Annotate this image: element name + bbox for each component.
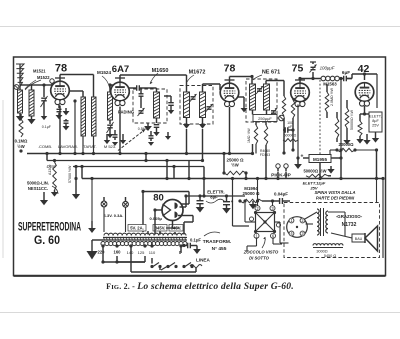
leader zoccolo xyxy=(262,237,266,248)
resistor diode b xyxy=(264,122,267,146)
svg-text:110: 110 xyxy=(149,250,156,255)
label 5V 2A xyxy=(128,225,146,232)
voice coil box xyxy=(352,234,365,242)
plate wire V5 up xyxy=(352,72,377,108)
resistor 2 Mohm xyxy=(325,84,334,118)
tuning capacitor C3 xyxy=(107,120,114,138)
trimmer circle right xyxy=(277,115,284,121)
transformer core xyxy=(103,237,187,241)
svg-text:57000 ½W: 57000 ½W xyxy=(68,165,72,183)
bus verticals left xyxy=(45,152,83,179)
vertical text A1300 xyxy=(48,165,52,175)
tube V4 75 xyxy=(291,83,310,106)
svg-text:½W: ½W xyxy=(17,144,24,149)
cap gnd osc zone xyxy=(148,131,154,146)
label tube V1 78 xyxy=(55,63,67,75)
cap pair right xyxy=(283,127,295,133)
dial lamp 2 xyxy=(123,201,129,207)
leader M1672 xyxy=(187,75,194,82)
diode plates V4 xyxy=(294,98,306,101)
leader M1522 xyxy=(25,80,36,89)
label tube V2 6A7 xyxy=(112,64,129,75)
drop to rect filament xyxy=(148,221,179,235)
svg-text:M1521: M1521 xyxy=(33,69,46,74)
screen resistor bar A xyxy=(81,97,86,136)
title SUPERETERODINA xyxy=(18,222,81,234)
box M1955 xyxy=(303,155,343,163)
svg-text:5450 Ω: 5450 Ω xyxy=(324,254,337,258)
socket pin 1 bottom left xyxy=(254,233,259,238)
speaker cone xyxy=(365,226,378,251)
svg-text:220: 220 xyxy=(98,250,106,255)
svg-text:78: 78 xyxy=(224,63,236,75)
cathode V3 xyxy=(238,97,247,112)
socket wires bottom xyxy=(247,238,282,252)
label 345V b xyxy=(169,225,183,232)
wire coil top to C1 xyxy=(32,83,46,88)
tap drops xyxy=(101,244,182,272)
stage drop coil xyxy=(144,152,147,162)
label TRASFORM 455 xyxy=(203,232,232,252)
IF transformer 2 box xyxy=(246,79,277,122)
dial lamp 1 xyxy=(101,201,107,207)
svg-text:M1522: M1522 xyxy=(37,75,50,80)
caption figure 2 xyxy=(106,281,294,292)
top cap V3 xyxy=(225,80,235,83)
resistor 50000 half W xyxy=(303,169,331,178)
svg-text:80: 80 xyxy=(153,193,164,204)
speaker wires xyxy=(304,212,352,238)
schematic border frame xyxy=(14,57,386,276)
label M1522 xyxy=(25,75,50,90)
wire plate V3 to IFT2 xyxy=(230,75,254,84)
cathode components V1 xyxy=(56,105,63,120)
tap labels xyxy=(98,250,182,256)
label LINEA 2 xyxy=(0,0,1,1)
wire choke to V5 xyxy=(339,74,352,150)
tube socket square xyxy=(254,211,276,233)
svg-text:NES11CC.: NES11CC. xyxy=(28,186,48,191)
wire socket to plug xyxy=(275,222,289,243)
grounds mid right xyxy=(343,134,370,145)
plus electrolytic xyxy=(301,154,304,160)
svg-text:0.5MΩ: 0.5MΩ xyxy=(138,127,149,131)
bus wire B2 xyxy=(73,166,204,168)
tube V2 6A7 xyxy=(111,82,130,105)
top cap V2 xyxy=(115,78,125,82)
top cap V1 xyxy=(55,78,65,81)
labels vertical small xyxy=(47,165,56,169)
IFT1 grounds xyxy=(183,118,206,129)
wire 20000 to right xyxy=(330,148,378,154)
transformer primary winding xyxy=(101,242,187,246)
svg-text:345V.: 345V. xyxy=(155,226,166,231)
svg-text:5V. 2A.: 5V. 2A. xyxy=(130,226,144,231)
IFT2 secondary coil xyxy=(264,84,270,110)
label PICK-UP xyxy=(268,172,295,179)
oscillator trimmer xyxy=(138,104,145,116)
bus wire B3 xyxy=(82,178,383,180)
electrolytic cap 2 xyxy=(222,194,233,213)
resistor 30000 xyxy=(335,112,339,142)
drop 56 ground xyxy=(72,165,80,199)
wire 345 taps xyxy=(152,232,175,247)
wire right edge xyxy=(381,177,384,258)
label IFT M1672 xyxy=(189,70,206,76)
label tube V3 78 xyxy=(224,63,236,75)
labels COMB LAVORAZ TARAT xyxy=(38,144,116,149)
wire bus to left gnd xyxy=(90,177,93,221)
antenna coil L1 primary xyxy=(18,90,23,113)
svg-text:LAVORAR.: LAVORAR. xyxy=(58,144,78,149)
IFT1 secondary coil xyxy=(200,92,206,118)
label IFT NE671 xyxy=(262,70,280,76)
output transformer core xyxy=(321,208,324,236)
svg-text:50000Ω ½W: 50000Ω ½W xyxy=(303,169,326,174)
wire screen A xyxy=(69,91,83,97)
capacitor 0.04uF xyxy=(272,192,290,205)
svg-text:160: 160 xyxy=(114,250,122,255)
svg-text:125: 125 xyxy=(138,250,145,255)
svg-text:M1524: M1524 xyxy=(97,70,111,75)
V5 cathode resistor xyxy=(356,106,369,144)
transformer secondary winding xyxy=(104,233,186,235)
wire IFT1 to V3 xyxy=(203,84,221,92)
svg-text:BAU: BAU xyxy=(355,237,363,241)
svg-text:FIG. 2. - Lo schema elettrico: FIG. 2. - Lo schema elettrico della Supe… xyxy=(106,281,294,292)
wire plate V2 to IFT1 xyxy=(120,75,187,92)
svg-text:.COMB.: .COMB. xyxy=(38,144,52,149)
stage drop V2 xyxy=(118,107,121,156)
ground right resistor xyxy=(327,166,334,174)
speaker assembly dashed box xyxy=(284,203,380,258)
tube V1 78 xyxy=(51,81,70,104)
page edge line bottom xyxy=(0,312,400,314)
field coil labels xyxy=(316,250,336,259)
wire frame to resistor xyxy=(19,114,22,153)
label SPINA xyxy=(314,190,355,201)
drops right xyxy=(318,149,378,203)
svg-text:A1300: A1300 xyxy=(48,165,52,175)
svg-text:N1732: N1732 xyxy=(342,222,357,228)
pot arrow osc xyxy=(118,130,145,151)
linea cord xyxy=(190,265,202,268)
svg-text:2.0MΩ ½W: 2.0MΩ ½W xyxy=(330,87,334,106)
top cap V4 xyxy=(295,80,305,83)
svg-text:25V: 25V xyxy=(372,124,379,128)
svg-text:25000 Ω: 25000 Ω xyxy=(243,191,260,196)
label tube V5 42 xyxy=(358,63,370,75)
svg-text:250μμF: 250μμF xyxy=(258,116,272,121)
oscillator cap xyxy=(139,89,144,99)
svg-text:½W: ½W xyxy=(231,163,238,168)
label 80 xyxy=(153,193,164,204)
title G60 xyxy=(34,235,60,247)
label M1521 xyxy=(33,69,46,74)
label 01uF xyxy=(42,125,52,129)
svg-text:50000Ω ¼W: 50000Ω ¼W xyxy=(350,109,354,130)
svg-text:PARTE DEI PIEDINI: PARTE DEI PIEDINI xyxy=(316,196,355,201)
cathode cap V1b xyxy=(63,108,70,130)
label GRAZIOSO xyxy=(335,213,365,220)
IFT1 trimmers xyxy=(190,94,213,112)
IFT1 primary coil xyxy=(184,92,190,118)
svg-text:+: + xyxy=(231,199,234,204)
svg-text:ELETT.: ELETT. xyxy=(369,115,381,119)
drop mid verticals xyxy=(165,159,205,180)
svg-text:8μF: 8μF xyxy=(210,195,218,200)
wire IFT2 out xyxy=(266,81,284,89)
ground transformer left xyxy=(88,221,96,233)
svg-text:1MΩ ½W: 1MΩ ½W xyxy=(247,128,251,143)
svg-text:M1650: M1650 xyxy=(152,68,169,74)
socket pin 3 top right xyxy=(270,206,275,211)
resistor 20000 xyxy=(335,142,356,152)
resistor network V4 grid xyxy=(282,88,294,155)
bars to bus xyxy=(81,136,95,155)
resistor M1994 xyxy=(238,186,262,209)
wire cathode bus V1 xyxy=(73,99,76,155)
svg-text:0.005μ: 0.005μ xyxy=(150,216,163,221)
antenna xyxy=(16,64,24,88)
svg-text:6.3V. 0.3A.: 6.3V. 0.3A. xyxy=(104,213,124,218)
svg-text:TRASFORM.: TRASFORM. xyxy=(203,239,232,245)
svg-text:6A7: 6A7 xyxy=(112,64,129,75)
svg-text:μF: μF xyxy=(288,125,292,129)
bus wire B1 xyxy=(47,160,204,162)
wire bottom right bus xyxy=(202,179,272,202)
svg-text:-GRAZIOSO-: -GRAZIOSO- xyxy=(336,214,363,219)
socket wires top xyxy=(256,177,274,206)
ground L3 xyxy=(144,123,152,131)
socket side pins xyxy=(249,217,280,227)
leader M1650 xyxy=(150,73,158,84)
stage drop IFT1 xyxy=(185,129,204,162)
field coil winding xyxy=(313,244,343,248)
wire plate V1 to B xyxy=(60,75,94,98)
drop pickup xyxy=(276,172,286,180)
svg-text:SUPERETERODINA: SUPERETERODINA xyxy=(18,222,81,234)
svg-text:3000Ω: 3000Ω xyxy=(316,250,327,254)
wire osc interior xyxy=(141,88,157,104)
wire to choke xyxy=(298,77,344,80)
label N1732 xyxy=(338,221,360,229)
wire antenna to coil xyxy=(14,85,31,90)
svg-text:0.1μF: 0.1μF xyxy=(42,125,52,129)
svg-text:0.1μF: 0.1μF xyxy=(190,238,201,243)
electrolytic cap 1 xyxy=(196,194,205,212)
labels small mid xyxy=(287,121,293,129)
ground elett xyxy=(372,132,379,143)
wire rect top xyxy=(104,190,189,232)
bus wire AVC xyxy=(27,153,252,155)
resistor 50000 quarter W xyxy=(345,100,354,134)
gnd osc zone b xyxy=(165,132,171,140)
resistor 25000 half W xyxy=(222,152,250,180)
tuning capacitor C1 xyxy=(41,88,48,120)
wire plate V6 345 xyxy=(153,208,162,234)
svg-text:5000Ω-LIN.: 5000Ω-LIN. xyxy=(27,181,49,186)
svg-text:M1563: M1563 xyxy=(323,82,337,87)
svg-text:LINEA: LINEA xyxy=(196,258,210,263)
ground L1 secondary xyxy=(27,116,35,124)
page edge line left xyxy=(2,100,4,258)
label lamp xyxy=(104,213,124,218)
wire left transformer xyxy=(92,240,103,242)
plug connector circle xyxy=(287,217,308,238)
output transformer primary xyxy=(317,209,319,235)
label tube V4 75 xyxy=(292,63,304,75)
svg-text:M1672: M1672 xyxy=(189,70,206,76)
socket wires left xyxy=(243,199,255,222)
svg-text:N° 455: N° 455 xyxy=(212,246,227,252)
label PADING xyxy=(118,110,134,115)
small caps row mid xyxy=(104,130,127,146)
capacitor 6uF xyxy=(342,70,352,81)
label 0.005 xyxy=(150,216,163,221)
capacitor 0.1uF line xyxy=(182,238,201,254)
grid wire L1 to V1 xyxy=(44,79,54,85)
switch contacts xyxy=(150,263,193,271)
svg-text:G. 60: G. 60 xyxy=(34,235,60,247)
ground left of M1955 xyxy=(294,105,302,169)
tube V6 80 rectifier xyxy=(162,200,183,221)
svg-text:+: + xyxy=(301,154,304,160)
stage drop V1 xyxy=(58,106,61,156)
label R4060 xyxy=(260,149,270,157)
elettr 8uF caps xyxy=(206,190,225,204)
oscillator grid components xyxy=(129,85,148,91)
label ZOCCOLO xyxy=(243,250,279,261)
tap bus wires xyxy=(101,260,196,272)
label coil M1650 xyxy=(152,68,169,74)
svg-text:75: 75 xyxy=(292,63,304,75)
label BUTT 1967 xyxy=(303,181,326,191)
tube V5 42 xyxy=(355,83,374,106)
svg-text:50000Ω: 50000Ω xyxy=(284,134,297,138)
svg-text:8μF: 8μF xyxy=(372,119,379,123)
label M1524 xyxy=(97,70,111,89)
svg-text:0.1MΩ: 0.1MΩ xyxy=(15,139,28,144)
leader NE671 xyxy=(253,75,262,80)
tube V3 78 xyxy=(220,83,239,106)
antenna coil L1 secondary xyxy=(29,90,34,116)
wire M1524 grid xyxy=(108,82,120,92)
wire M1955 down xyxy=(339,148,342,158)
label LINEA xyxy=(196,258,210,263)
svg-text:6μF: 6μF xyxy=(342,70,350,75)
potentiometer 5000 ohm xyxy=(27,181,58,195)
pickup terminals xyxy=(273,161,291,172)
ground antenna coil xyxy=(16,113,24,121)
socket pin 2 top left xyxy=(255,206,260,211)
choke M1563 xyxy=(321,76,339,86)
resistor 50000 low xyxy=(283,134,298,142)
label 100uuF xyxy=(320,66,335,71)
label 345V a xyxy=(153,225,167,232)
socket pin 6 bottom right xyxy=(271,233,276,238)
RF coil M1524 xyxy=(108,92,113,120)
svg-text:0.04μF: 0.04μF xyxy=(274,192,288,197)
svg-text:DI SOTTO: DI SOTTO xyxy=(249,256,269,261)
svg-text:FD143: FD143 xyxy=(260,153,270,157)
resistor 0.1M half W xyxy=(15,119,28,149)
svg-text:M1955: M1955 xyxy=(313,157,327,162)
oscillator box xyxy=(133,89,167,123)
svg-text:ZOCCOLO VISTO: ZOCCOLO VISTO xyxy=(243,250,279,255)
lamp drops xyxy=(104,207,126,232)
big ground arrow xyxy=(87,242,98,260)
IFT2 trimmers xyxy=(256,86,277,116)
output transformer secondary xyxy=(326,211,328,233)
trimmer capacitor 100uuF xyxy=(310,62,317,77)
vertical text 57000 xyxy=(68,165,72,183)
svg-text:20000Ω: 20000Ω xyxy=(338,142,354,147)
IF transformer 1 box xyxy=(180,86,213,125)
page edge line top xyxy=(0,26,400,28)
svg-text:100μμF: 100μμF xyxy=(320,66,335,71)
volume control dashed shaft xyxy=(319,80,321,160)
pot wires xyxy=(40,159,58,205)
resistor 1M diode xyxy=(247,122,258,145)
oscillator coil L3 xyxy=(154,92,160,118)
svg-text:NE 671: NE 671 xyxy=(262,70,280,76)
wire rect anode2 xyxy=(178,216,193,235)
svg-text:PICK-UP: PICK-UP xyxy=(271,173,292,179)
padding capacitor xyxy=(153,118,160,136)
svg-text:78: 78 xyxy=(55,63,67,75)
IFT2 primary coil xyxy=(250,84,256,110)
box 250uuF xyxy=(253,115,277,122)
stage drop V3 xyxy=(228,107,231,155)
svg-text:SPINA VISTA DALLA: SPINA VISTA DALLA xyxy=(314,190,355,195)
label 05M xyxy=(138,127,149,131)
wire rect to socket area xyxy=(180,177,250,226)
screen resistor bar B xyxy=(92,97,97,136)
diode load parts xyxy=(253,110,267,115)
V5 right components xyxy=(369,112,382,132)
svg-text:TARAT.: TARAT. xyxy=(83,144,96,149)
cap osc2 xyxy=(164,96,174,114)
stage drop IFT2 xyxy=(251,144,268,180)
